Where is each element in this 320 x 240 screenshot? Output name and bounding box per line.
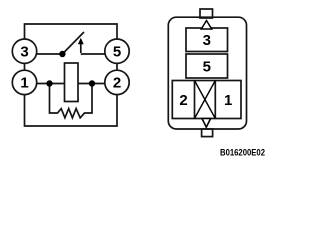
svg-text:2: 2: [179, 92, 187, 109]
svg-text:3: 3: [203, 32, 211, 49]
svg-text:5: 5: [203, 58, 211, 75]
svg-text:1: 1: [20, 75, 28, 92]
svg-text:1: 1: [224, 92, 232, 109]
svg-text:3: 3: [20, 44, 28, 61]
svg-text:2: 2: [113, 75, 121, 92]
svg-text:5: 5: [113, 44, 121, 61]
svg-text:B016200E02: B016200E02: [220, 148, 265, 159]
